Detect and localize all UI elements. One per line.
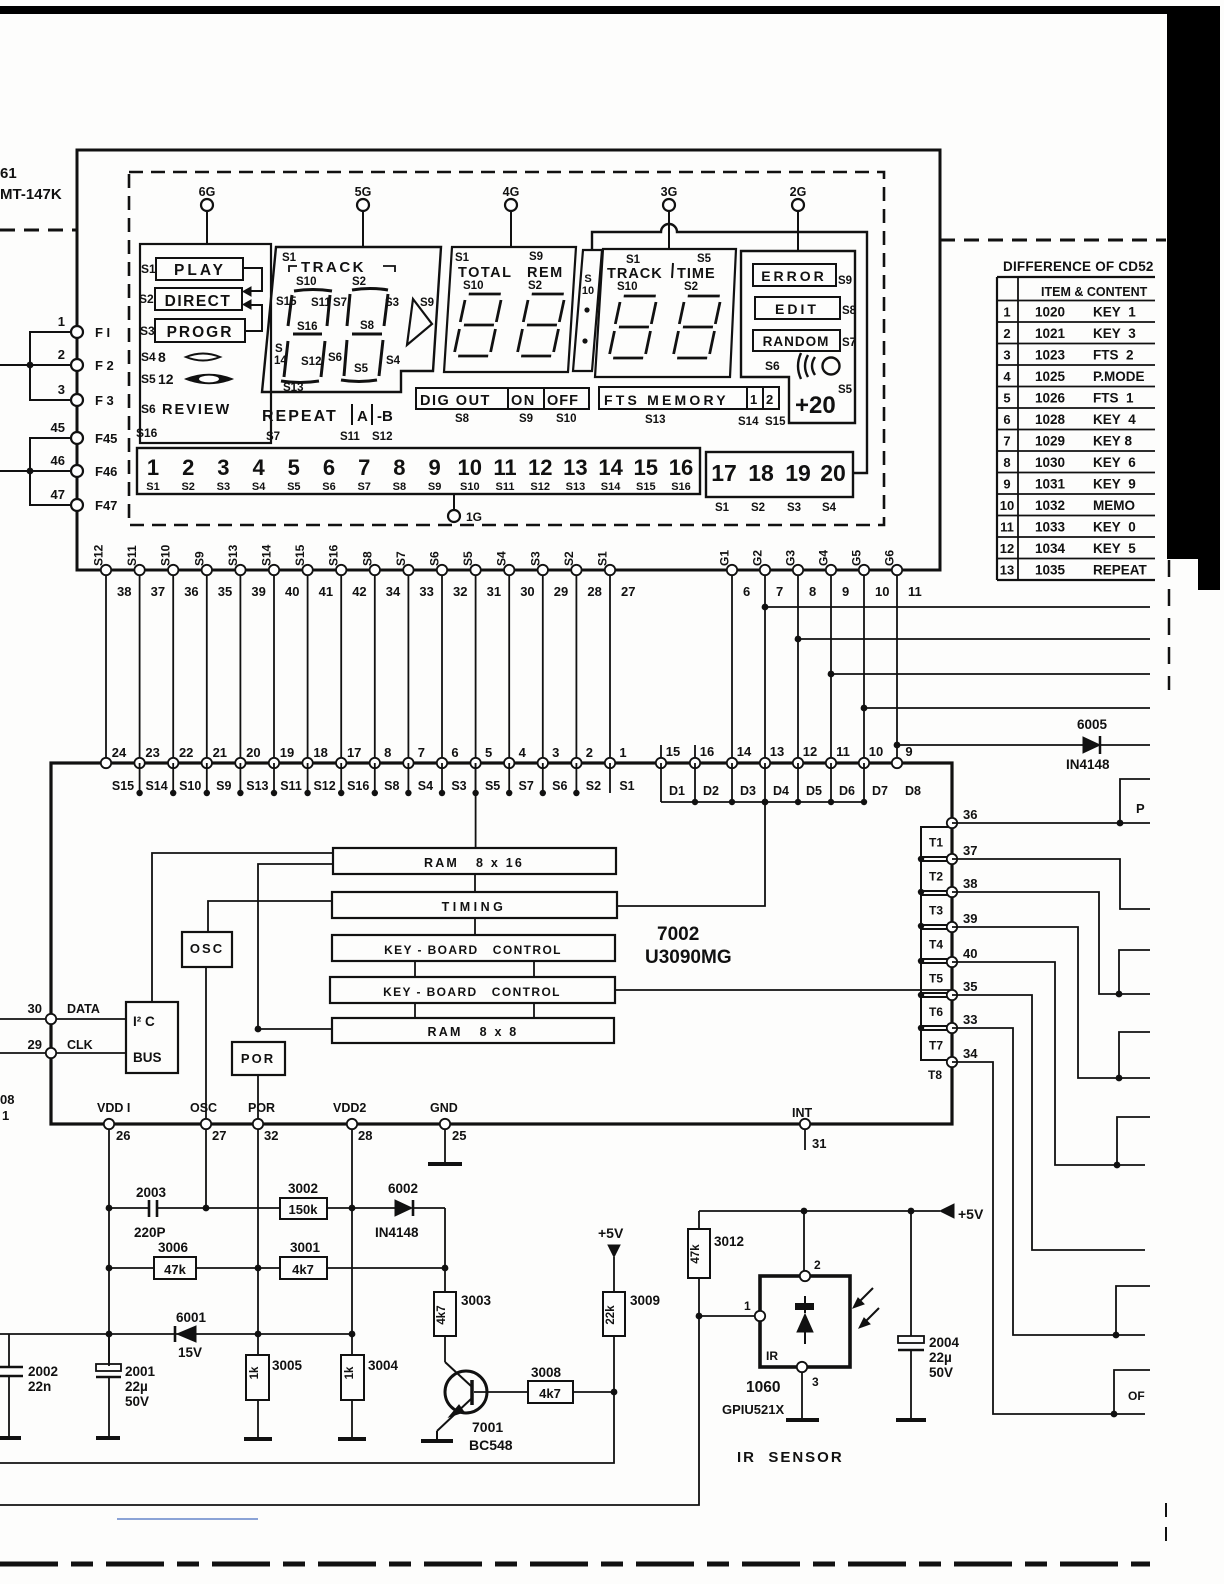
svg-text:D5: D5 (806, 784, 822, 798)
table row 5: 1026 (1003, 391, 1134, 406)
capacitor 2001 22u 50V electrolytic (96, 1334, 156, 1436)
svg-text:30: 30 (520, 584, 534, 599)
IC pin 25 GND (430, 1101, 466, 1143)
svg-text:9: 9 (905, 744, 912, 759)
IC pin 7 (S4) (403, 745, 433, 793)
wire display G2 pin 7 to IC (751, 550, 784, 763)
IC pin 1 (S1) (605, 745, 635, 793)
svg-text:REVIEW: REVIEW (162, 402, 231, 418)
svg-text:6001: 6001 (176, 1310, 207, 1325)
IC pin 24 (S15) (101, 745, 134, 793)
svg-text:9: 9 (842, 584, 849, 599)
ground symbol 2004 (896, 1418, 926, 1422)
IC pin 40 (T) (947, 946, 978, 967)
svg-text:19: 19 (280, 745, 294, 760)
IC pin 2 (S2) (571, 745, 601, 793)
svg-text:3: 3 (58, 382, 65, 397)
svg-text:47k: 47k (164, 1262, 186, 1277)
IC pin 21 (S9) (202, 745, 232, 793)
svg-text:PROGR: PROGR (167, 324, 234, 341)
svg-text:6: 6 (323, 455, 335, 480)
svg-text:TOTAL: TOTAL (458, 265, 512, 281)
display status box (left) (140, 244, 271, 443)
svg-text:1031: 1031 (1035, 477, 1066, 492)
svg-text:T4: T4 (929, 938, 943, 952)
svg-text:S16: S16 (136, 426, 158, 440)
segment number 3 / S3 (217, 455, 230, 493)
svg-text:S: S (275, 343, 283, 355)
wire pin 38 output with branch (952, 892, 1150, 997)
svg-text:1060: 1060 (746, 1379, 780, 1396)
svg-text:3006: 3006 (158, 1240, 189, 1255)
svg-text:50V: 50V (125, 1394, 149, 1409)
svg-text:20: 20 (246, 745, 260, 760)
svg-text:17: 17 (711, 460, 737, 486)
table row line 11 (997, 515, 1155, 517)
IC pin 20 (S13) (235, 745, 268, 793)
resistor 3005 1k (246, 1355, 303, 1437)
IC pin 14 (D3) (727, 744, 756, 798)
table row 7: 1029 (1003, 434, 1132, 449)
wire S5 pin to RAM 8x16 (475, 763, 477, 848)
svg-text:DATA: DATA (67, 1002, 100, 1016)
svg-text:14: 14 (598, 455, 623, 480)
display numbers box 1-16 (137, 448, 700, 494)
wire bracket F1-F3 (30, 332, 71, 400)
svg-text:D6: D6 (839, 784, 855, 798)
svg-text:S13: S13 (246, 779, 268, 793)
svg-text:TRACK: TRACK (607, 266, 663, 282)
svg-text:S3: S3 (528, 551, 542, 566)
display module outer box (77, 150, 940, 570)
display pin F 2 (58, 347, 114, 373)
svg-text:KEY 9: KEY 9 (1093, 477, 1136, 492)
IC block TIMING (332, 892, 617, 918)
svg-text:VDD2: VDD2 (333, 1101, 366, 1115)
segment number 11 / S11 (493, 455, 516, 493)
svg-text:S9: S9 (519, 413, 533, 425)
page right black margin bar (1167, 6, 1220, 590)
segment number 2 / S2 (181, 455, 194, 493)
svg-text:F47: F47 (95, 498, 117, 513)
wire 3008/3009 node to page left (0, 1389, 617, 1463)
svg-text:3G: 3G (661, 185, 678, 199)
svg-text:KEY - BOARD CONTROL: KEY - BOARD CONTROL (383, 985, 561, 999)
svg-text:S7: S7 (266, 431, 280, 443)
IC 7002 U3090MG body (51, 763, 952, 1124)
svg-text:P: P (1136, 801, 1145, 816)
svg-text:S2: S2 (528, 280, 542, 292)
svg-text:29: 29 (554, 584, 568, 599)
svg-text:1023: 1023 (1035, 348, 1066, 363)
svg-text:10: 10 (869, 744, 883, 759)
resistor 3004 1k (341, 1355, 399, 1437)
svg-text:TIMING: TIMING (442, 900, 507, 914)
svg-text:EDIT: EDIT (775, 301, 819, 317)
power +5V for 3009 (598, 1225, 624, 1292)
svg-text:S2: S2 (684, 281, 698, 293)
segment number 13 / S13 (563, 455, 587, 493)
svg-text:DIRECT: DIRECT (165, 293, 232, 310)
svg-text:S6: S6 (328, 352, 342, 364)
svg-text:8: 8 (158, 349, 166, 365)
svg-text:S16: S16 (347, 779, 369, 793)
svg-text:S15: S15 (276, 296, 297, 308)
svg-text:1: 1 (147, 455, 159, 480)
svg-text:2001: 2001 (125, 1364, 156, 1379)
svg-text:22µ: 22µ (929, 1350, 952, 1365)
table row 10: 1032 (1000, 498, 1135, 513)
svg-text:RAM 8 x 16: RAM 8 x 16 (424, 856, 524, 870)
segment number 4 / S4 (252, 455, 266, 493)
IC pin 15 stub (D1) (660, 745, 662, 763)
svg-text:+5V: +5V (958, 1206, 984, 1222)
svg-text:-B: -B (377, 408, 393, 425)
svg-text:IR SENSOR: IR SENSOR (737, 1449, 844, 1466)
IC pin 28 VDD2 (333, 1101, 372, 1143)
svg-text:MEMO: MEMO (1093, 498, 1135, 513)
sheet dashed border right segment (940, 239, 1166, 242)
display TOTAL REM box (444, 247, 576, 372)
svg-text:KEY 4: KEY 4 (1093, 412, 1136, 427)
svg-text:S16: S16 (327, 544, 341, 566)
svg-text:FTS MEMORY: FTS MEMORY (604, 392, 729, 408)
svg-text:11: 11 (493, 455, 516, 480)
svg-text:35: 35 (218, 584, 232, 599)
IC pin 16 (D2) (690, 744, 719, 798)
svg-text:S14: S14 (145, 779, 167, 793)
svg-text:40: 40 (963, 946, 977, 961)
table row 11: 1033 (1000, 520, 1136, 535)
svg-text:G5: G5 (850, 550, 864, 566)
table row 4: 1025 (1003, 369, 1144, 384)
table row line 9 (997, 472, 1155, 474)
svg-text:KEY 0: KEY 0 (1093, 520, 1136, 535)
IC pin 13 (D4) (760, 744, 789, 798)
IC S-cell separator at pin 7 (405, 763, 411, 796)
wire pin 39 output with branch (952, 927, 1150, 1081)
wire G4 segment output (828, 671, 1150, 678)
IC pin 27 OSC (190, 1101, 226, 1143)
segment row FTS MEMORY 1 2 (599, 387, 786, 428)
IC pin 11 (D6) (826, 744, 855, 798)
svg-text:REPEAT: REPEAT (1093, 563, 1148, 578)
segment REPEAT A-B (262, 404, 393, 443)
IC S-cell separator at pin 19 (271, 763, 277, 796)
svg-text:S8: S8 (360, 551, 374, 566)
svg-text:S9: S9 (192, 551, 206, 566)
IC pin 15 (D1) (656, 744, 685, 798)
svg-text:12: 12 (528, 455, 552, 480)
svg-text:4: 4 (1003, 369, 1011, 384)
svg-text:S10: S10 (556, 413, 576, 425)
IC pin 29 CLK (0, 1037, 126, 1058)
table row line 1 (997, 300, 1155, 302)
svg-text:S4: S4 (252, 481, 266, 493)
IC pin 36 (T) (947, 807, 978, 828)
table row line 4 (997, 364, 1155, 366)
svg-text:10: 10 (458, 455, 482, 480)
svg-text:T2: T2 (929, 870, 943, 884)
IC S-cell separator at pin 6 (439, 763, 445, 796)
svg-text:15V: 15V (178, 1345, 202, 1360)
svg-text:F 3: F 3 (95, 393, 114, 408)
wire KBC1 to KBC2 left (414, 961, 416, 977)
wire display S8 pin 34 to IC (360, 551, 401, 763)
svg-text:S5: S5 (461, 551, 475, 566)
svg-text:2002: 2002 (28, 1364, 58, 1379)
svg-text:IN4148: IN4148 (375, 1225, 419, 1240)
svg-text:DIG OUT: DIG OUT (420, 393, 491, 409)
table row line 10 (997, 493, 1155, 495)
svg-text:1: 1 (619, 745, 626, 760)
wire display S5 pin 31 to IC (461, 551, 501, 763)
svg-text:1G: 1G (466, 510, 482, 524)
svg-text:S4: S4 (822, 502, 837, 514)
wire I2C BUS to RAM 8x16 (152, 853, 333, 1002)
IC pin 8 (S8) (370, 745, 400, 793)
svg-text:T8: T8 (928, 1068, 942, 1082)
svg-text:6005: 6005 (1077, 717, 1108, 732)
wire KBC1 to KBC2 right (533, 961, 535, 977)
wire TIMING to KEY-BOARD CONTROL 1 (474, 918, 476, 935)
svg-text:2: 2 (1003, 326, 1010, 341)
svg-text:3: 3 (552, 745, 559, 760)
svg-text:U3090MG: U3090MG (645, 947, 732, 968)
svg-text:11: 11 (908, 584, 922, 599)
svg-text:S2: S2 (139, 292, 154, 306)
svg-text:38: 38 (963, 876, 977, 891)
ground symbol 2002 (0, 1436, 21, 1440)
svg-text:6002: 6002 (388, 1181, 418, 1196)
svg-text:OSC: OSC (190, 941, 224, 956)
resistor 3003 4k7 (434, 1208, 492, 1362)
segment row DIG OUT ON OFF (416, 388, 589, 425)
svg-text:BC548: BC548 (469, 1437, 513, 1453)
svg-text:30: 30 (28, 1001, 42, 1016)
svg-text:32: 32 (453, 584, 467, 599)
svg-text:2003: 2003 (136, 1185, 167, 1200)
svg-text:S8: S8 (842, 305, 857, 317)
TOTAL REM header labels (455, 251, 564, 292)
resistor 3009 22k (603, 1292, 660, 1392)
wire F46 to page left (0, 468, 71, 475)
wire G6 output through diode 6005 (894, 742, 1150, 749)
svg-text:1: 1 (2, 1108, 9, 1123)
svg-text:2: 2 (766, 392, 773, 407)
svg-text:ITEM & CONTENT: ITEM & CONTENT (1041, 285, 1148, 299)
svg-text:S1: S1 (146, 481, 159, 493)
svg-text:6G: 6G (199, 185, 216, 199)
svg-text:08: 08 (0, 1092, 14, 1107)
svg-text:KEY - BOARD CONTROL: KEY - BOARD CONTROL (384, 943, 562, 957)
svg-text:S9: S9 (420, 297, 434, 309)
svg-text:8: 8 (384, 745, 391, 760)
segment number 5 / S5 (287, 455, 300, 493)
svg-text:S14: S14 (601, 481, 621, 493)
segment S8 EDIT (755, 297, 857, 319)
svg-text:BUS: BUS (133, 1050, 162, 1065)
svg-text:41: 41 (319, 584, 333, 599)
table row 2: 1021 (1003, 326, 1136, 341)
display backplane terminal 4G (503, 185, 520, 247)
segment S4 8 lens icon (141, 349, 220, 365)
table row line 3 (997, 343, 1155, 345)
wire display S2 pin 28 to IC (562, 551, 602, 763)
IC pin 19 (S11) (269, 745, 302, 793)
svg-text:ERROR: ERROR (761, 268, 827, 284)
svg-text:7: 7 (1003, 434, 1010, 449)
wire display G6 pin 11 to IC (883, 550, 922, 763)
svg-text:S2: S2 (352, 276, 366, 288)
segment S6 REVIEW (141, 402, 231, 418)
svg-text:GND: GND (430, 1101, 458, 1115)
IC pin 9 (D8) (892, 744, 921, 798)
svg-text:S8: S8 (393, 481, 406, 493)
svg-text:2: 2 (58, 347, 65, 362)
svg-text:S6: S6 (141, 402, 156, 416)
svg-text:1: 1 (750, 392, 757, 407)
svg-text:S11: S11 (280, 779, 302, 793)
svg-text:1021: 1021 (1035, 326, 1066, 341)
svg-text:1025: 1025 (1035, 369, 1066, 384)
svg-text:61: 61 (0, 165, 17, 182)
wire display S7 pin 33 to IC (394, 551, 434, 763)
svg-text:T7: T7 (929, 1039, 943, 1053)
wire pin 40 output with branch (952, 962, 1150, 1168)
IC S-cell separator at pin 23 (136, 763, 142, 796)
wire display G1 pin 6 to IC (718, 550, 751, 763)
svg-text:14: 14 (737, 744, 752, 759)
table row line 13 (997, 558, 1155, 560)
IC S-cell separator at pin 22 (170, 763, 176, 796)
table row 1: 1020 (1003, 305, 1136, 320)
svg-text:7001: 7001 (472, 1419, 503, 1435)
wire display S9 pin 35 to IC (192, 551, 232, 763)
svg-text:22µ: 22µ (125, 1379, 148, 1394)
svg-text:D8: D8 (905, 784, 921, 798)
wire F2 to page left (0, 362, 71, 369)
svg-text:3002: 3002 (288, 1181, 318, 1196)
svg-text:34: 34 (386, 584, 401, 599)
IC pin 16 stub (D2) (694, 745, 696, 763)
wire OSC to TIMING (208, 901, 332, 932)
svg-text:S10: S10 (463, 280, 483, 292)
svg-text:T1: T1 (929, 836, 943, 850)
ground symbol 3004 (338, 1437, 366, 1441)
TRACK digit 1 segments with S labels (274, 276, 332, 394)
svg-text:35: 35 (963, 979, 977, 994)
svg-text:S10: S10 (617, 281, 637, 293)
resistor 3012 47k (688, 1211, 744, 1316)
table row 13: 1035 (1000, 563, 1148, 578)
display numbers box 17-20 (706, 452, 853, 497)
IC T-cell T6 (921, 997, 952, 1026)
display TRACK digit box (262, 247, 441, 392)
svg-text:TRACK: TRACK (301, 259, 366, 276)
svg-text:POR: POR (241, 1051, 275, 1066)
svg-text:DIFFERENCE OF CD52: DIFFERENCE OF CD52 (1003, 259, 1154, 274)
IC S-cell separator at pin 21 (204, 763, 210, 796)
svg-text:F46: F46 (95, 464, 117, 479)
svg-text:S7: S7 (333, 297, 347, 309)
table row line 2 (997, 321, 1155, 323)
svg-text:F 2: F 2 (95, 358, 114, 373)
wire display S6 pin 32 to IC (428, 551, 468, 763)
IC T-cell T7 (921, 1030, 952, 1060)
svg-text:RAM 8 x 8: RAM 8 x 8 (428, 1025, 519, 1039)
svg-text:S12: S12 (92, 544, 106, 566)
svg-text:S2: S2 (586, 779, 601, 793)
IC block I2C BUS (126, 1002, 178, 1073)
svg-text:S5: S5 (287, 481, 300, 493)
svg-text:3001: 3001 (290, 1240, 321, 1255)
svg-text:26: 26 (116, 1128, 130, 1143)
power +5V arrow right (940, 1204, 984, 1222)
svg-text:31: 31 (812, 1136, 826, 1151)
photodiode inside IR sensor (795, 1296, 814, 1344)
IC S-cell separator at pin 18 (304, 763, 310, 796)
display module inner dashed outline (129, 172, 884, 525)
svg-text:15: 15 (634, 455, 658, 480)
display terminal 1G (448, 494, 482, 524)
wire display S1 pin 27 to IC (596, 551, 636, 763)
IC name label 7002 U3090MG (645, 924, 732, 968)
wire pin 37 output (952, 859, 1150, 909)
svg-text:12: 12 (1000, 541, 1014, 556)
svg-text:6: 6 (451, 745, 458, 760)
sheet bottom dash-dot border (0, 1562, 1150, 1567)
svg-text:T6: T6 (929, 1005, 943, 1019)
svg-text:5G: 5G (355, 185, 372, 199)
svg-text:39: 39 (251, 584, 265, 599)
capacitor 2002 22n (0, 1334, 58, 1436)
svg-text:3012: 3012 (714, 1234, 744, 1249)
wire OSC block to pin 27 (205, 967, 207, 1124)
svg-text:S6: S6 (428, 551, 442, 566)
blue scan artifact line (117, 1518, 258, 1520)
wire display G5 pin 10 to IC (850, 550, 890, 763)
svg-text:15: 15 (666, 744, 680, 759)
wire G3 segment output (795, 636, 1150, 643)
table row line 6 (997, 407, 1155, 409)
svg-text:S9: S9 (529, 251, 543, 263)
svg-text:T5: T5 (929, 972, 943, 986)
wire G5 segment output (861, 705, 1150, 712)
wire RAM 8x16 to TIMING (474, 874, 476, 892)
svg-text:2G: 2G (790, 185, 807, 199)
IC pin 34 (T) (947, 1046, 978, 1067)
svg-text:F I: F I (95, 325, 110, 340)
svg-text:S9: S9 (428, 481, 441, 493)
svg-text:1029: 1029 (1035, 434, 1065, 449)
ground symbol 3005 (244, 1437, 272, 1441)
wire display S15 pin 41 to IC (293, 544, 333, 763)
svg-text:S4: S4 (495, 551, 509, 566)
svg-text:S3: S3 (217, 481, 230, 493)
segment number 16 / S16 (669, 455, 693, 493)
svg-text:28: 28 (358, 1128, 372, 1143)
svg-text:F45: F45 (95, 431, 117, 446)
segment S7 RANDOM (753, 330, 856, 351)
svg-text:50V: 50V (929, 1365, 953, 1380)
IC S-cell separator at pin 2 (573, 763, 579, 796)
svg-text:13: 13 (563, 455, 587, 480)
svg-text:INT: INT (792, 1106, 813, 1120)
svg-text:17: 17 (347, 745, 361, 760)
IC block OSC (182, 932, 232, 967)
svg-text:VDD I: VDD I (97, 1101, 130, 1115)
